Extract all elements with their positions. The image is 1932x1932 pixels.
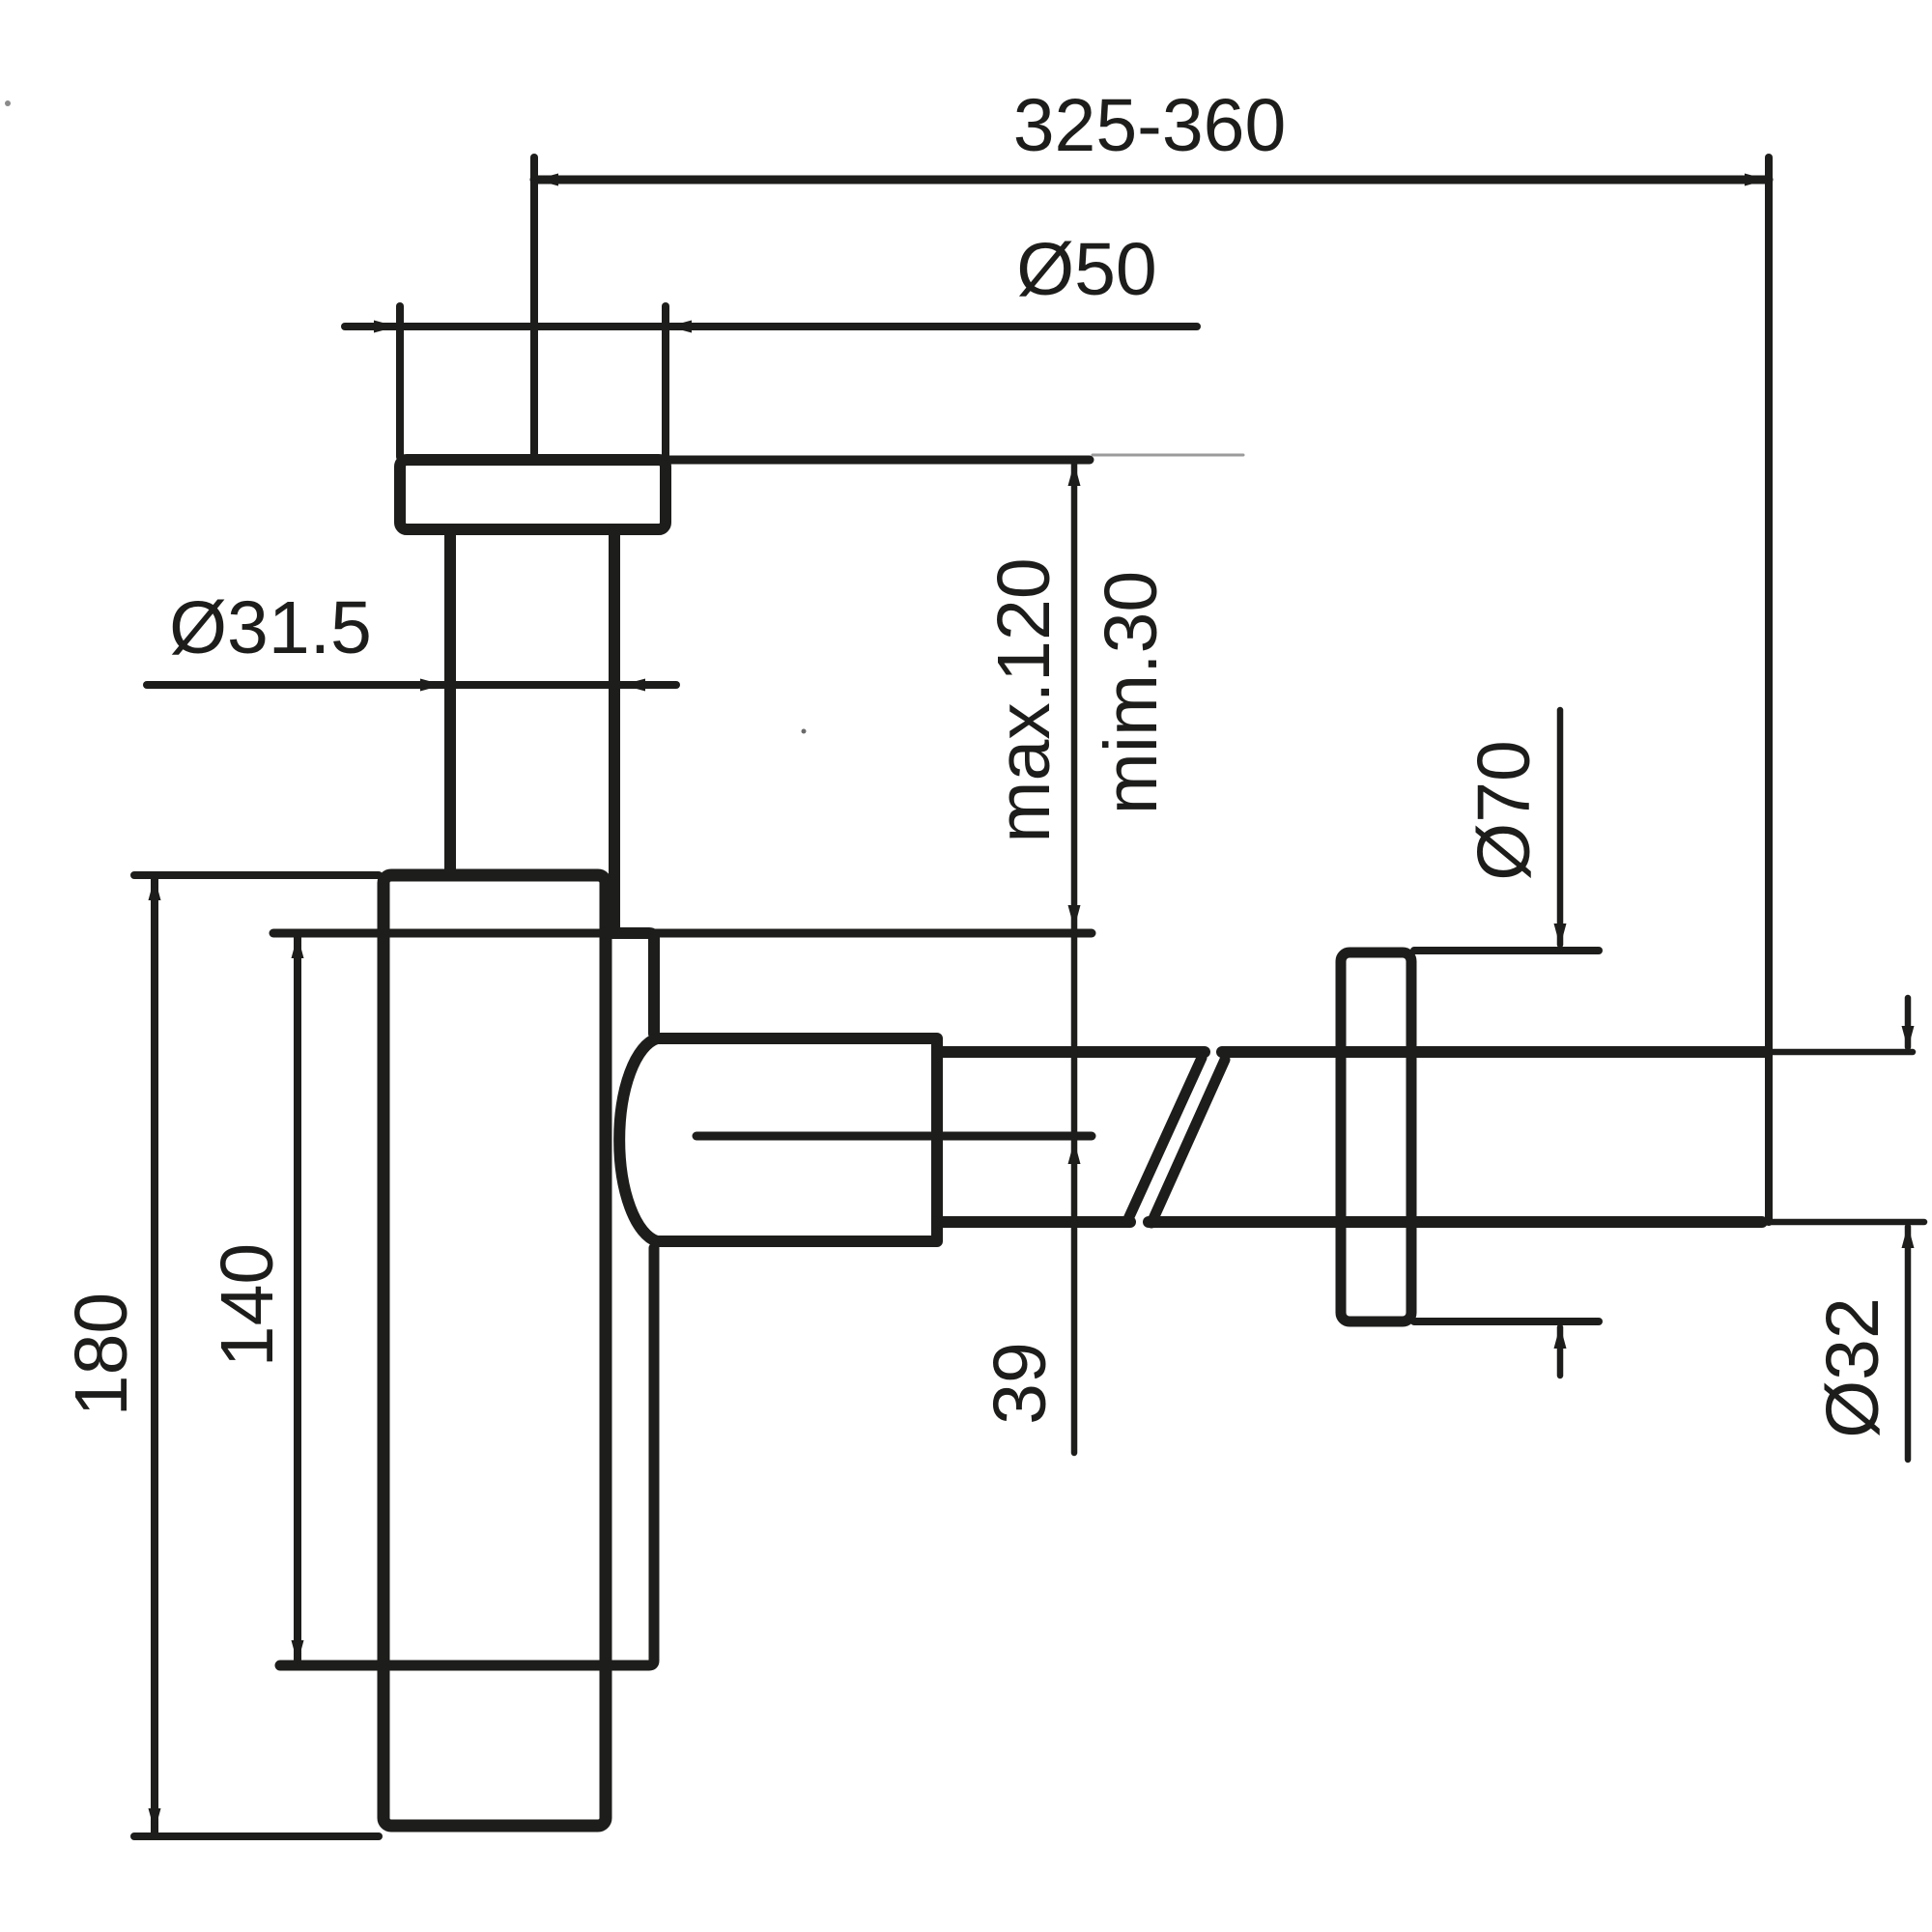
svg-text:Ø70: Ø70 — [1463, 740, 1546, 881]
inner tube line inside elbow/pipe — [696, 1132, 1092, 1141]
arrowhead max.120 top (points up) — [1068, 463, 1081, 486]
arrowhead Ø50 left (points right) — [374, 321, 397, 333]
arrowhead Ø32 bottom (points up) — [1902, 1225, 1915, 1248]
dimension line Ø70 lower — [1557, 1327, 1564, 1376]
outlet pipe bottom edge, right of break — [1149, 1216, 1762, 1228]
flange top reference line extended right (max.120 upper reference) — [666, 456, 1090, 465]
arrowhead 325-360 left — [535, 174, 558, 186]
arrowhead 325-360 right — [1745, 174, 1768, 186]
dimension line Ø50 — [345, 323, 1197, 330]
pipe top thin extension beyond wall — [1772, 1049, 1913, 1056]
svg-text:180: 180 — [60, 1293, 143, 1416]
wall escutcheon flange — [1341, 952, 1411, 1321]
pipe bottom thin extension beyond wall — [1768, 1219, 1924, 1226]
svg-text:140: 140 — [206, 1243, 289, 1367]
arrowhead max.120 bottom (points down) — [1068, 905, 1081, 928]
stray speck centre — [802, 729, 807, 734]
stray speck upper left — [5, 100, 11, 106]
dimension line Ø70 upper — [1557, 710, 1564, 945]
faint continuation of reference line — [1093, 454, 1243, 457]
svg-text:Ø31.5: Ø31.5 — [169, 586, 372, 669]
arrowhead Ø31.5 left (points right) — [420, 679, 443, 692]
outlet pipe bottom edge, left of break — [937, 1216, 1130, 1228]
extension line Ø50 left — [396, 306, 404, 457]
svg-text:Ø32: Ø32 — [1811, 1297, 1894, 1438]
arrowhead 140 top (points up) — [292, 935, 304, 958]
tailpipe right wall (runs down to cup rim) — [609, 532, 620, 930]
arrowhead Ø50 right (points left) — [668, 321, 692, 333]
tailpipe left wall — [444, 532, 456, 873]
arrowhead Ø31.5 right (points left) — [622, 679, 645, 692]
svg-text:mim.30: mim.30 — [1090, 571, 1173, 814]
dimension line 180 — [151, 875, 158, 1833]
arrowhead 180 bottom (points down) — [149, 1808, 161, 1832]
trap body (bottle) — [384, 875, 606, 1826]
extension line Ø70 bottom — [1414, 1318, 1599, 1325]
dimension line 325-360 — [534, 176, 1769, 185]
dimension line 140 — [294, 933, 301, 1665]
extension line 180 top — [134, 871, 379, 879]
svg-text:39: 39 — [979, 1342, 1062, 1425]
body cup rim line (140 upper reference) — [273, 929, 1092, 938]
collar lower segment with cup rim line (140 lower reference) — [280, 1248, 654, 1665]
arrowhead 180 top (points up) — [149, 877, 161, 900]
dimension line Ø32 upper — [1905, 998, 1912, 1047]
pipe break diagonal 2 — [1151, 1060, 1225, 1223]
dimension line Ø31.5 — [147, 681, 676, 689]
dimension line max.120 / mim.30 / 39 — [1071, 462, 1078, 1453]
centreline extension of tailpipe (left extension of 325-360) — [530, 157, 538, 458]
outlet pipe top edge, left of break — [937, 1046, 1205, 1058]
elbow (outlet nut, bullet shape) — [619, 1038, 937, 1241]
arrowhead Ø70 bottom (points up) — [1554, 1325, 1567, 1349]
extension line Ø50 right — [662, 306, 669, 457]
svg-text:max.120: max.120 — [982, 557, 1065, 842]
svg-text:325-360: 325-360 — [1013, 84, 1287, 167]
svg-text:Ø50: Ø50 — [1016, 228, 1157, 311]
arrowhead Ø70 top (points down) — [1554, 923, 1567, 947]
arrowhead 140 bottom (points down) — [292, 1640, 304, 1663]
arrowhead 39 (points up) — [1068, 1141, 1081, 1164]
arrowhead Ø32 top (points down) — [1902, 1026, 1915, 1049]
outlet pipe top edge, right of break — [1222, 1046, 1767, 1058]
extension line Ø70 top — [1414, 947, 1599, 954]
wall line / right extension of 325-360 — [1765, 157, 1773, 1222]
extension line 180 bottom — [134, 1833, 379, 1840]
collar upper segment — [605, 933, 654, 1034]
dimension line Ø32 lower — [1905, 1227, 1912, 1460]
pipe break diagonal 1 — [1127, 1058, 1202, 1221]
top flange (tank connector) — [400, 460, 666, 529]
